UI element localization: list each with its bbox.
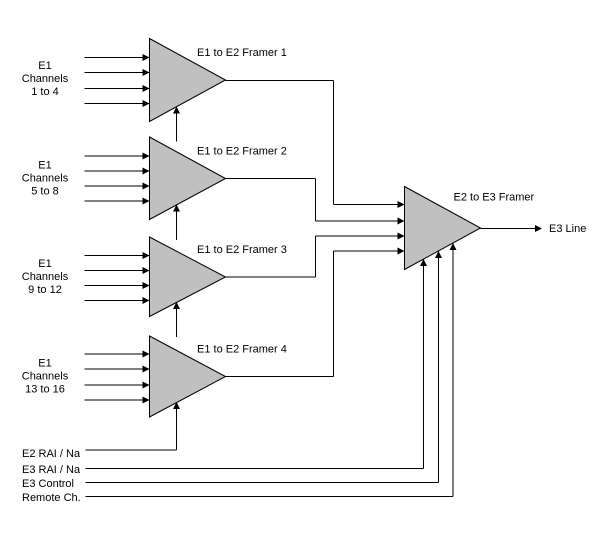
svg-text:E1: E1 bbox=[38, 358, 51, 370]
svg-text:Channels: Channels bbox=[22, 73, 69, 85]
svg-text:Channels: Channels bbox=[22, 271, 69, 283]
svg-text:E3 Line: E3 Line bbox=[549, 223, 586, 235]
svg-text:Remote Ch.: Remote Ch. bbox=[22, 492, 81, 504]
svg-text:9 to 12: 9 to 12 bbox=[28, 284, 62, 296]
svg-text:E1 to E2 Framer 4: E1 to E2 Framer 4 bbox=[197, 344, 287, 356]
svg-text:1 to 4: 1 to 4 bbox=[31, 86, 59, 98]
svg-text:E1 to E2 Framer 1: E1 to E2 Framer 1 bbox=[197, 47, 287, 59]
svg-text:E2 to E3 Framer: E2 to E3 Framer bbox=[454, 192, 535, 204]
svg-text:E1 to E2 Framer 2: E1 to E2 Framer 2 bbox=[197, 146, 287, 158]
svg-text:Channels: Channels bbox=[22, 371, 69, 383]
svg-text:E3 RAI / Na: E3 RAI / Na bbox=[22, 464, 81, 476]
svg-text:13 to 16: 13 to 16 bbox=[25, 384, 65, 396]
svg-text:Channels: Channels bbox=[22, 173, 69, 185]
svg-text:E3 Control: E3 Control bbox=[22, 478, 74, 490]
svg-text:E2 RAI / Na: E2 RAI / Na bbox=[22, 448, 81, 460]
svg-text:E1: E1 bbox=[38, 60, 51, 72]
svg-text:E1: E1 bbox=[38, 258, 51, 270]
svg-text:E1: E1 bbox=[38, 160, 51, 172]
svg-text:E1 to E2 Framer 3: E1 to E2 Framer 3 bbox=[197, 244, 287, 256]
svg-text:5 to 8: 5 to 8 bbox=[31, 186, 59, 198]
